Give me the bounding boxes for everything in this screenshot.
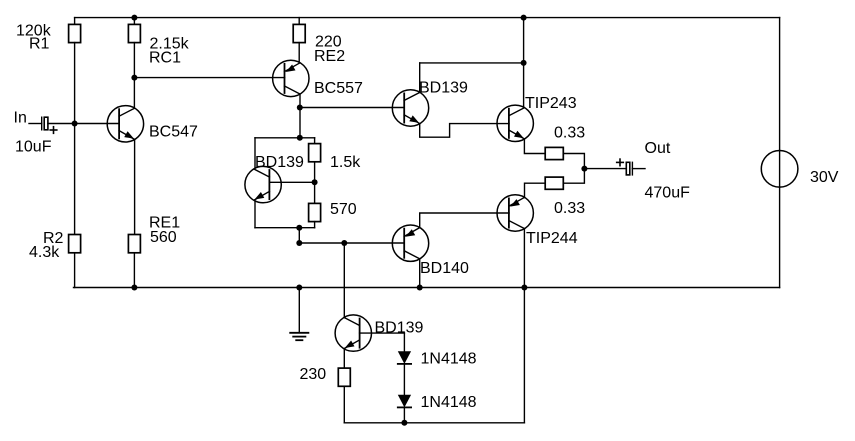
svg-text:10uF: 10uF xyxy=(15,138,52,155)
svg-text:RE2: RE2 xyxy=(314,48,345,65)
svg-text:BD139: BD139 xyxy=(255,154,304,171)
svg-text:RC1: RC1 xyxy=(149,49,181,66)
svg-text:1.5k: 1.5k xyxy=(330,154,361,171)
svg-text:BC557: BC557 xyxy=(314,80,363,97)
svg-text:560: 560 xyxy=(150,229,177,246)
svg-text:TIP244: TIP244 xyxy=(526,230,578,247)
svg-text:1N4148: 1N4148 xyxy=(421,350,477,367)
svg-text:470uF: 470uF xyxy=(645,184,691,201)
svg-text:BC547: BC547 xyxy=(149,124,198,141)
svg-text:BD139: BD139 xyxy=(419,79,468,96)
svg-text:30V: 30V xyxy=(810,169,839,186)
svg-text:In: In xyxy=(14,109,27,126)
svg-text:0.33: 0.33 xyxy=(554,124,585,141)
svg-text:0.33: 0.33 xyxy=(554,200,585,217)
svg-text:1N4148: 1N4148 xyxy=(421,394,477,411)
svg-text:BD140: BD140 xyxy=(420,260,469,277)
svg-text:Out: Out xyxy=(645,140,671,157)
svg-text:570: 570 xyxy=(330,201,357,218)
svg-text:4.3k: 4.3k xyxy=(29,244,60,261)
svg-text:TIP243: TIP243 xyxy=(525,95,577,112)
svg-text:230: 230 xyxy=(300,366,327,383)
svg-text:R1: R1 xyxy=(29,35,50,52)
